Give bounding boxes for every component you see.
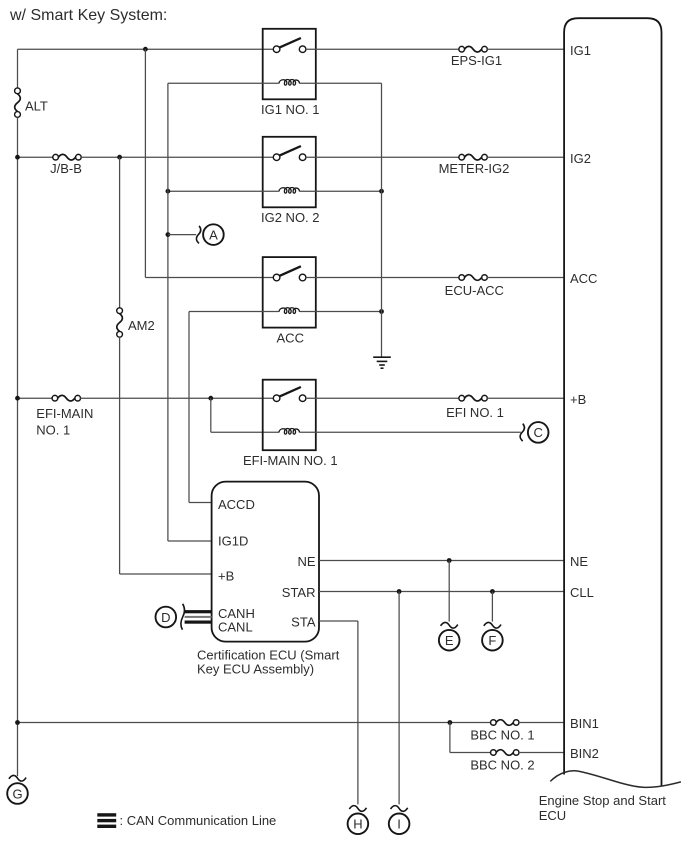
svg-text:F: F bbox=[488, 633, 496, 648]
connector F (connector F) bbox=[482, 630, 503, 651]
connector C (connector C) bbox=[528, 422, 549, 443]
svg-text:IG1 NO. 1: IG1 NO. 1 bbox=[261, 102, 320, 117]
wire: IG1 relay out to EPS-IG1 fuse bbox=[306, 48, 459, 50]
svg-text:: CAN Communication Line: : CAN Communication Line bbox=[120, 813, 277, 828]
svg-text:I: I bbox=[397, 817, 401, 832]
svg-text:ACC: ACC bbox=[570, 271, 597, 286]
svg-text:IG1D: IG1D bbox=[218, 534, 248, 549]
wire: BIN2 branch to BBC NO. 2 fuse bbox=[450, 752, 491, 754]
fuse BBC NO. 1 bbox=[491, 720, 519, 726]
wire: EFI-MAIN relay coil right to connector C bbox=[300, 431, 521, 433]
svg-text:C: C bbox=[534, 425, 543, 440]
fuse EFI-MAIN NO. 1 (left) bbox=[52, 395, 80, 401]
svg-text:BIN2: BIN2 bbox=[570, 746, 599, 761]
wire: left bus to BBC NO. 1 fuse bbox=[18, 722, 491, 724]
fuse EPS-IG1 bbox=[459, 46, 487, 52]
svg-text:EFI NO. 1: EFI NO. 1 bbox=[446, 405, 504, 420]
svg-text:EFI-MAIN NO. 1: EFI-MAIN NO. 1 bbox=[243, 453, 338, 468]
svg-text:METER-IG2: METER-IG2 bbox=[439, 161, 510, 176]
svg-text:BIN1: BIN1 bbox=[570, 716, 599, 731]
wire: branch down to connector F bbox=[491, 592, 493, 622]
ground symbol bbox=[373, 357, 391, 368]
wire: IG2 relay coil right to ground bus bbox=[300, 190, 382, 192]
break squiggle above connector F bbox=[484, 622, 501, 628]
connector H (connector H) bbox=[348, 814, 369, 835]
node: EFI-MAIN feed / coil branch junction bbox=[208, 396, 213, 401]
node: left bus / BIN feed junction bbox=[15, 720, 20, 725]
connector A (connector A) bbox=[203, 224, 224, 245]
svg-text:+B: +B bbox=[218, 569, 234, 584]
node: IG2 feed / AM2 branch junction bbox=[117, 155, 122, 160]
wire: ACC relay coil left to ACCD bus bbox=[189, 311, 279, 313]
wire: IG2 relay out to METER-IG2 fuse bbox=[306, 156, 459, 158]
connector I (connector I) bbox=[389, 814, 410, 835]
connector D (connector D (CAN)) bbox=[156, 607, 177, 628]
CAN communication line stubs (CANH/CANL) bbox=[185, 610, 212, 624]
wire: IG1 relay coil right to ground bus bbox=[300, 82, 382, 84]
break squiggle above connector H bbox=[349, 806, 366, 812]
fuse METER-IG2 bbox=[459, 154, 487, 160]
wire: branch to connector A bbox=[168, 234, 196, 236]
svg-text:CANL: CANL bbox=[218, 620, 253, 635]
svg-text:+B: +B bbox=[570, 392, 586, 407]
svg-text:Certification ECU (Smart: Certification ECU (Smart bbox=[197, 648, 340, 663]
wire: left bus to EFI-MAIN NO. 1 fuse bbox=[18, 397, 53, 399]
wire: IG2 relay coil left to IG1D bus bbox=[168, 190, 279, 192]
svg-text:ALT: ALT bbox=[25, 98, 48, 113]
wire: left bus top segment (to ALT) bbox=[17, 49, 19, 88]
wire: IG1D bus vertical (IG1 coil to Certification ECU IG1D) bbox=[167, 83, 169, 541]
svg-text:Key ECU Assembly): Key ECU Assembly) bbox=[197, 662, 314, 677]
wire: Certification ECU STAR to Engine ECU CLL bbox=[319, 591, 564, 593]
wire: BIN2 branch vertical bbox=[449, 723, 451, 753]
svg-text:NE: NE bbox=[570, 554, 588, 569]
svg-text:ACC: ACC bbox=[277, 330, 304, 345]
wire: relay coil ground bus vertical bbox=[381, 83, 383, 357]
wire: branch down to EFI-MAIN relay coil bbox=[210, 398, 212, 432]
svg-text:ACCD: ACCD bbox=[218, 497, 255, 512]
wire: BBC NO. 1 fuse to ECU pin BIN1 bbox=[519, 722, 564, 724]
wire: ACC relay out to ECU-ACC fuse bbox=[306, 277, 459, 279]
fuse EFI NO. 1 bbox=[459, 395, 487, 401]
ECU: Engine Stop and Start ECU box bbox=[564, 18, 661, 785]
svg-text:Engine Stop and Start: Engine Stop and Start bbox=[539, 793, 667, 808]
wire: Certification ECU NE to Engine ECU NE bbox=[319, 560, 564, 562]
wire: battery feed to IG1 relay switch bbox=[18, 48, 274, 50]
wire: ACCD bus vertical (ACC coil to Certification ECU ACCD) bbox=[188, 312, 190, 503]
wire: AM2 bus upper segment bbox=[119, 157, 121, 308]
break squiggle at connector A bbox=[196, 226, 200, 244]
wire: ACC relay coil right to ground bus bbox=[300, 311, 382, 313]
node: left bus / EFI-MAIN feed junction bbox=[15, 396, 20, 401]
wire: EFI-MAIN relay out to EFI NO. 1 fuse bbox=[306, 397, 459, 399]
svg-text:STAR: STAR bbox=[282, 585, 316, 600]
svg-text:AM2: AM2 bbox=[128, 318, 155, 333]
svg-text:D: D bbox=[161, 610, 170, 625]
svg-text:IG1: IG1 bbox=[570, 43, 591, 58]
svg-text:BBC NO. 2: BBC NO. 2 bbox=[470, 758, 534, 773]
wire: J/B-B fuse to IG2 relay switch bbox=[81, 156, 273, 158]
svg-text:H: H bbox=[353, 817, 362, 832]
svg-text:NO. 1: NO. 1 bbox=[36, 423, 70, 438]
node: top feed / ACC-branch junction bbox=[143, 47, 148, 52]
node: STAR wire / connector I branch bbox=[397, 589, 402, 594]
wire: into Certification ECU pin ACCD bbox=[189, 502, 212, 504]
svg-text:ECU: ECU bbox=[539, 808, 566, 823]
svg-text:CLL: CLL bbox=[570, 585, 594, 600]
wire: Certification ECU STA out bbox=[319, 620, 358, 622]
wire: left bus main vertical bbox=[17, 117, 19, 776]
wire: branch into EFI-MAIN relay coil bbox=[211, 431, 279, 433]
wire: vertical branch to ACC relay switch bbox=[144, 49, 146, 277]
svg-text:EFI-MAIN: EFI-MAIN bbox=[36, 406, 93, 421]
svg-text:IG2: IG2 bbox=[570, 151, 591, 166]
node: IG1D bus / connector A branch bbox=[166, 232, 171, 237]
svg-text:EPS-IG1: EPS-IG1 bbox=[451, 53, 502, 68]
wire: BBC NO. 2 fuse to ECU pin BIN2 bbox=[519, 752, 564, 754]
relay IG2 NO. 2 bbox=[261, 137, 320, 225]
wire: METER-IG2 fuse to ECU pin IG2 bbox=[487, 156, 564, 158]
wire: AM2 bus lower segment to Certification ECU +B bbox=[119, 337, 121, 574]
svg-text:J/B-B: J/B-B bbox=[50, 161, 82, 176]
node: NE wire / connector E branch bbox=[447, 558, 452, 563]
fusible link ALT bbox=[15, 88, 21, 117]
wire: IG1 relay coil left to IG1D bus bbox=[168, 82, 279, 84]
wire: into Certification ECU pin +B bbox=[120, 573, 212, 575]
svg-text:E: E bbox=[445, 633, 454, 648]
svg-text:STA: STA bbox=[291, 614, 316, 629]
connector G (ground connector G) bbox=[7, 783, 28, 804]
relay IG1 NO. 1 bbox=[261, 29, 320, 117]
legend: CAN communication line symbol bbox=[97, 813, 116, 828]
wire: left bus to J/B-B fuse bbox=[18, 156, 54, 158]
fusible link AM2 bbox=[117, 308, 123, 337]
wire: EFI-MAIN NO. 1 fuse to EFI-MAIN relay switch bbox=[80, 397, 273, 399]
wire: ECU-ACC fuse to ECU pin ACC bbox=[487, 277, 564, 279]
svg-text:IG2 NO. 2: IG2 NO. 2 bbox=[261, 210, 320, 225]
svg-text:ECU-ACC: ECU-ACC bbox=[445, 283, 504, 298]
break squiggle above connector G bbox=[9, 775, 26, 781]
relay EFI-MAIN NO. 1 bbox=[243, 380, 338, 468]
svg-text:A: A bbox=[209, 227, 218, 242]
ECU: Certification ECU (Smart Key ECU Assembly) box bbox=[212, 482, 319, 642]
svg-text:BBC NO. 1: BBC NO. 1 bbox=[470, 728, 534, 743]
svg-text:G: G bbox=[12, 786, 22, 801]
break squiggle at connector C bbox=[520, 424, 524, 442]
wire: into Certification ECU pin IG1D bbox=[168, 540, 212, 542]
connector E (connector E) bbox=[439, 630, 460, 651]
Engine ECU torn bottom edge bbox=[550, 771, 681, 788]
break squiggle above connector E bbox=[441, 622, 458, 628]
node: left bus / IG2 feed junction bbox=[15, 155, 20, 160]
fuse BBC NO. 2 bbox=[491, 750, 519, 756]
node: IG1D bus / IG2 coil junction bbox=[166, 189, 171, 194]
fuse J/B-B bbox=[53, 154, 81, 160]
wire: EPS-IG1 fuse to ECU pin IG1 bbox=[487, 48, 564, 50]
svg-text:NE: NE bbox=[297, 554, 315, 569]
wire: ACC relay switch feed bbox=[145, 277, 273, 279]
fuse ECU-ACC bbox=[459, 275, 487, 281]
node: STAR wire / connector F branch bbox=[490, 589, 495, 594]
svg-text:w/ Smart Key System:: w/ Smart Key System: bbox=[9, 7, 167, 24]
wire: EFI NO. 1 fuse to ECU pin +B bbox=[487, 397, 564, 399]
wire: branch down to connector E bbox=[448, 561, 450, 622]
node: BIN1 wire / BIN2 branch junction bbox=[448, 720, 453, 725]
relay ACC bbox=[263, 257, 316, 345]
wire: STAR branch down to connector I bbox=[398, 592, 400, 805]
wire: STA down to connector H bbox=[357, 621, 359, 804]
node: ground bus / IG2 coil junction bbox=[379, 189, 384, 194]
node: ground bus / ACC coil junction bbox=[379, 309, 384, 314]
break squiggle above connector I bbox=[391, 806, 408, 812]
break squiggle at connector D bbox=[181, 604, 185, 630]
